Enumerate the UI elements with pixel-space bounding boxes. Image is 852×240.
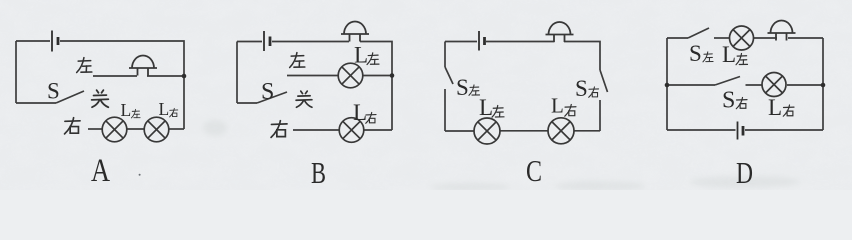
switch S (blade) B (257, 92, 287, 103)
wire C right vertical lower (599, 100, 601, 131)
battery C (short plate) (483, 37, 486, 45)
wire A lamp branch right (169, 128, 184, 130)
node junction A (bell branch to right wire) (182, 74, 187, 79)
wire B bottom-left to switch (237, 102, 257, 104)
svg-text:S: S (456, 75, 469, 100)
wire D switch to lamp (714, 37, 730, 39)
wire D middle branch left (667, 84, 715, 86)
wire D right vertical (822, 38, 824, 130)
svg-text:L: L (479, 95, 493, 120)
svg-text:A: A (91, 153, 110, 189)
wire B battery to bell (272, 41, 349, 43)
lamp L_you B (339, 118, 364, 143)
svg-text:S: S (261, 79, 274, 105)
label 左 (B) (290, 53, 305, 68)
wire D top-left corner to switch (667, 37, 688, 39)
wire D battery to bottom-right (745, 129, 823, 131)
wire A left vertical (15, 41, 17, 103)
wire C lamp2 to bottom-right (574, 130, 600, 132)
bell C (546, 22, 574, 42)
battery C (long plate) (478, 31, 480, 51)
wire D lamp to right (middle) (787, 84, 823, 86)
wire C left vertical lower (444, 89, 446, 131)
svg-text:L: L (551, 94, 564, 118)
switch S_you (blade) C (600, 70, 608, 92)
battery D (long plate) (737, 122, 739, 140)
switch S (blade) A (56, 91, 84, 103)
svg-text:L: L (722, 42, 736, 67)
wire C bell to top-right corner (564, 42, 600, 71)
lamp L_you D (762, 73, 786, 97)
bell D (768, 21, 796, 41)
wire B left vertical (236, 42, 238, 104)
wire B L_zuo branch right (363, 75, 392, 77)
switch S_zuo (blade) D (688, 28, 709, 38)
lamp L2 (L_you) A (144, 117, 169, 142)
node junction D (middle branch left) (665, 83, 670, 88)
speck near A (139, 174, 141, 176)
svg-text:L: L (353, 100, 367, 125)
wire D lamp to bell (753, 37, 777, 39)
wire D left vertical (666, 38, 668, 130)
svg-text:S: S (575, 76, 588, 101)
node junction B (L_zuo branch to right wire) (390, 73, 395, 78)
battery A (long plate) (51, 31, 53, 52)
wire D bottom-left to battery (667, 129, 736, 131)
wire D bell to top-right corner (788, 37, 823, 39)
wire A bell branch left (93, 75, 137, 77)
svg-text:D: D (736, 155, 753, 190)
wire A battery to top-right corner and right vertical (60, 41, 184, 129)
svg-text:L: L (354, 43, 368, 68)
lamp L1 (L_zuo) A (102, 117, 127, 142)
switch S_zuo (blade) C (445, 67, 453, 84)
lamp L_zuo C (474, 118, 500, 144)
wire A between lamps (127, 128, 144, 130)
label 右 (A) (65, 118, 80, 134)
faint bleed-through smudges (203, 120, 800, 191)
battery B (short plate) (269, 37, 272, 47)
label 右 (B) (271, 121, 287, 138)
wire C between lamps (500, 130, 548, 132)
bell B (341, 22, 369, 42)
wire A bottom-left to switch (16, 102, 56, 104)
svg-text:S: S (47, 79, 60, 104)
battery D (short plate) (742, 126, 745, 136)
wire B L_you branch left (293, 129, 339, 131)
wire B L_zuo branch left (287, 75, 338, 77)
bell A (129, 56, 157, 76)
svg-text:L: L (121, 100, 132, 120)
wire A top-left to battery (16, 40, 50, 42)
svg-text:S: S (722, 88, 735, 114)
wire A bell branch right (147, 75, 184, 77)
svg-text:B: B (311, 155, 326, 190)
battery A (short plate) (57, 37, 60, 45)
svg-text:L: L (768, 95, 782, 120)
lamp L_zuo D (730, 26, 754, 50)
paper background (0, 0, 852, 190)
label 关 (A) (92, 90, 109, 107)
svg-text:L: L (159, 99, 170, 119)
switch S_you (blade) D (715, 77, 740, 86)
svg-text:S: S (689, 41, 702, 66)
wire B bell to top-right corner, right vertical (360, 42, 392, 131)
label 左 (A) (77, 58, 92, 73)
wire C left vertical upper (444, 42, 446, 68)
wire C battery to bell (486, 41, 555, 43)
wire C top-left to battery (445, 41, 477, 43)
wire A lamp branch left (88, 128, 102, 130)
lamp L_zuo B (338, 63, 363, 88)
wire B top-left to battery (237, 41, 262, 43)
battery B (long plate) (263, 31, 265, 51)
label 关 (B) (296, 91, 312, 107)
lamp L_you C (548, 118, 574, 144)
wire C bottom-left to lamp1 (445, 130, 474, 132)
node junction D (middle branch right) (821, 83, 826, 88)
wire D switch to lamp (middle) (746, 84, 763, 86)
svg-text:C: C (526, 153, 542, 188)
wire B L_you branch right (364, 129, 392, 131)
